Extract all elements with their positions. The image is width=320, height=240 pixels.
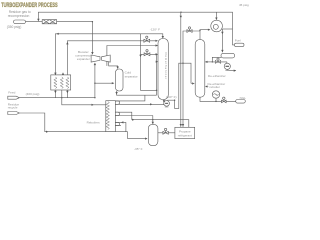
wire deeth reboiler down (215, 98, 217, 101)
wire separator liquid line (117, 91, 157, 95)
wire pump discharge link (168, 63, 192, 108)
wire demeth bottoms drop (163, 99, 165, 104)
wire JT valve line (67, 41, 157, 76)
reflux drum (221, 53, 235, 58)
deeth reboiler circle (212, 91, 219, 98)
overhead bypass valve (187, 27, 192, 33)
arrow reflux into column (205, 61, 208, 63)
arrow recycle flow (46, 131, 49, 133)
svg-text:De-ethanizer: De-ethanizer (208, 74, 226, 78)
arrow into exch top a (54, 73, 56, 76)
svg-text:(350 psig): (350 psig) (7, 25, 22, 29)
svg-text:(-90° F): (-90° F) (166, 95, 177, 99)
svg-text:(400 psig): (400 psig) (26, 92, 40, 96)
arrow condenser out flow (221, 32, 223, 35)
residue outlet capsule (14, 20, 26, 24)
junction dot downcomer (156, 90, 157, 91)
wire drum to pump (212, 57, 227, 62)
arrow JT into column (156, 40, 159, 42)
wire condenser header link (222, 28, 232, 30)
propane refrigerant package (175, 127, 195, 138)
junction dot header chiller (152, 119, 153, 120)
wire chiller vapor header (132, 120, 189, 128)
gas-gas exchanger box (51, 75, 71, 90)
wire reboiler to chiller (128, 132, 147, 139)
deeth condenser circle (211, 20, 223, 32)
svg-text:Fuel: Fuel (235, 39, 241, 43)
svg-text:45 psig: 45 psig (239, 3, 249, 7)
arrow reboiler coil feed (92, 104, 95, 106)
wire exchanger pass-through (54, 90, 56, 98)
wire reboiler loop3a (115, 122, 126, 131)
wire reboiler loop2a (115, 112, 132, 120)
arrow demeth bottoms (163, 100, 165, 103)
reboiler U-tube 2 (115, 112, 119, 115)
svg-text:reboiler: reboiler (210, 85, 220, 89)
svg-text:Demethanizer: Demethanizer (164, 53, 168, 80)
arrow loop1b flow (150, 103, 153, 105)
svg-text:recompression: recompression (8, 14, 30, 18)
demeth bottoms pump (164, 101, 170, 107)
wire reboiler loop1a (115, 95, 145, 101)
arrow exch top c up (62, 72, 64, 75)
wire recycle drop line (141, 34, 157, 91)
wire exchanger to reboiler coil (62, 90, 106, 105)
junction dot cooler corner (92, 21, 93, 22)
svg-text:Reboilers: Reboilers (87, 121, 101, 125)
wire NGL line (200, 97, 236, 102)
junction dot feed mix (61, 97, 62, 98)
arrow into residue line (37, 19, 39, 22)
NGL valve (222, 97, 227, 103)
wire residue gas outlet (26, 21, 43, 23)
junction dot ngl (215, 101, 216, 102)
reboiler U-tube 3 (115, 122, 119, 125)
arrow overhead flow (56, 33, 59, 35)
wire residue recycle (20, 113, 128, 132)
svg-text:refrigerant: refrigerant (178, 133, 192, 137)
arrow into propane box b (182, 124, 184, 127)
arrow reboiler return into column (205, 85, 208, 87)
wire second drop (183, 31, 200, 127)
arrow into chiller top (152, 122, 154, 125)
arrow into demeth top (162, 36, 164, 39)
NGL capsule (236, 100, 246, 104)
fuel capsule (234, 43, 244, 46)
svg-text:NGL: NGL (240, 96, 247, 100)
arrow expander line into column (156, 44, 159, 46)
arrow into condenser (208, 29, 211, 31)
arrow reflux pump down (234, 70, 237, 72)
arrow into propane box a (180, 124, 182, 127)
feed inlet symbol (8, 96, 20, 99)
svg-text:TURBOEXPANDER PROCESS: TURBOEXPANDER PROCESS (1, 2, 57, 9)
wire expander discharge to column (107, 46, 158, 66)
wire reflux pump discharge (227, 69, 236, 70)
wire exch stub c (66, 90, 68, 98)
wire exchanger to demethanizer top feed (55, 34, 162, 76)
arrow drop a top (180, 16, 182, 18)
arrow recycle drop (139, 55, 141, 57)
reflux valve (215, 58, 220, 63)
exchanger coil 2 (60, 77, 63, 89)
svg-text:recycle: recycle (8, 105, 18, 109)
arrow into exch top b (66, 42, 68, 45)
svg-text:-120° F: -120° F (150, 27, 160, 31)
wire chiller top drop (152, 116, 154, 125)
junction dot valve line (156, 54, 157, 55)
wire feed line (19, 97, 95, 99)
junction dot propane top (180, 12, 181, 13)
expander (102, 55, 111, 62)
junction dot pump top (174, 100, 175, 101)
arrow chiller header flow (132, 119, 135, 121)
exchanger coil 1 (54, 77, 57, 89)
wire reboiler loop1b bottoms (115, 103, 164, 105)
wire condenser top drop (215, 12, 217, 19)
wire reflux to column (205, 61, 212, 63)
recycle inlet symbol (8, 112, 20, 115)
wire pump top stub (226, 62, 228, 63)
arrow into separator side (112, 82, 115, 84)
arrow separator bottom (115, 92, 117, 95)
JT valve (144, 36, 150, 42)
wire lower feed stub (157, 61, 158, 63)
reboiler U-tube 1 (115, 101, 119, 104)
propane chiller vessel (148, 124, 158, 145)
junction dot riser top (199, 30, 200, 31)
junction dot feed tap (182, 63, 183, 64)
wire propane long drop (180, 12, 182, 127)
wire expander outlet to separator (109, 62, 118, 69)
junction dot bottoms (163, 104, 164, 105)
wire deeth overhead (199, 30, 201, 40)
junction dot sep side (94, 83, 95, 84)
wire condenser to drum (221, 29, 223, 52)
reboiler shell (106, 101, 116, 132)
arrow exch down c (66, 91, 68, 93)
midfeed valve (144, 50, 150, 56)
demethanizer column (158, 39, 168, 100)
arrow into drum (221, 50, 223, 53)
wire reboiler loop3b (115, 125, 121, 127)
arrow into separator top (117, 67, 119, 70)
arrow lowfeed into column (156, 61, 158, 63)
arrow into deeth feed (192, 82, 195, 84)
wire cooler to booster riser (57, 22, 93, 55)
arrow exch down a (54, 91, 56, 93)
booster compressor (91, 55, 100, 62)
svg-text:expander: expander (77, 57, 90, 61)
propane letdown valve (158, 128, 175, 134)
wire booster suction riser (94, 63, 96, 97)
reflux pump (224, 63, 230, 69)
svg-text:separator: separator (125, 74, 138, 78)
svg-text:Feed: Feed (8, 90, 15, 94)
wire top residue header (38, 12, 234, 45)
arrow midfeed into column (156, 53, 159, 55)
arrow into chiller (145, 138, 148, 140)
reboiler internal coil (106, 102, 109, 130)
arrow into booster bottom (94, 63, 96, 66)
svg-text:-35° F: -35° F (134, 147, 143, 151)
arrow loop3 return (121, 121, 124, 123)
air cooler (42, 20, 56, 24)
de-ethanizer column (195, 40, 205, 98)
wire separator side feed (95, 82, 114, 84)
exchanger coil 3 (66, 77, 69, 89)
arrow booster discharge (91, 52, 93, 55)
wire reboiler loop2b (115, 115, 153, 117)
wire column side downcomer (156, 54, 158, 95)
junction dot riser feed (94, 97, 95, 98)
junction dot drum line (212, 61, 213, 62)
arrow condenser top in (215, 18, 217, 21)
cold separator vessel (116, 69, 124, 91)
wire midfeed valve line (141, 53, 158, 55)
